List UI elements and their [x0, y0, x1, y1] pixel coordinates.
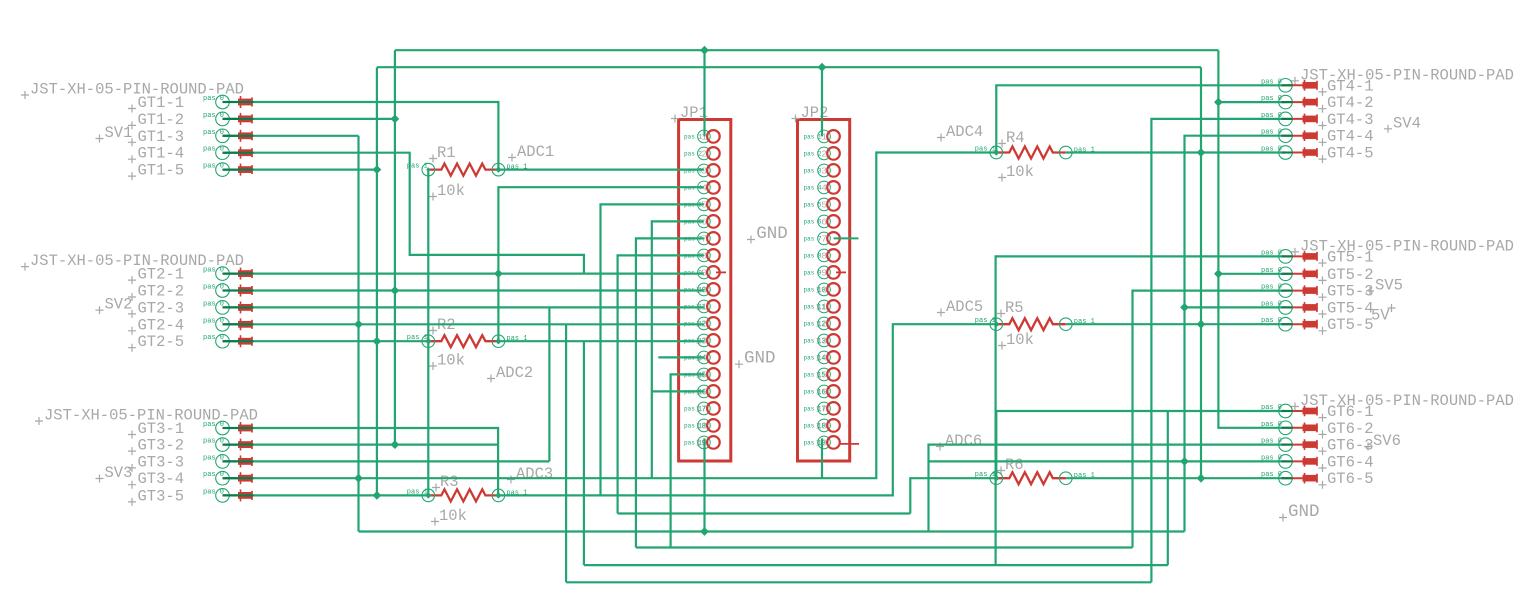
wire GT2-2 row to JP1 pin10: [223, 289, 704, 291]
svg-text:5V: 5V: [1371, 307, 1390, 325]
resistor pad1 circle: [422, 163, 435, 176]
svg-text:pas 0: pas 0: [203, 129, 224, 137]
round pad GT2-5: [216, 334, 230, 348]
wire GT1-5 to GND bus: [223, 169, 377, 171]
svg-text:GT5-5: GT5-5: [1327, 316, 1374, 334]
svg-text:GT6-1: GT6-1: [1327, 403, 1374, 421]
round pad GT5-5: [1279, 317, 1293, 331]
JP1 pin9 red stub: [716, 271, 726, 273]
pin symbol GT2-4: [223, 318, 253, 330]
resistor pad2 circle: [492, 335, 505, 348]
pin symbol GT1-2: [223, 113, 253, 125]
svg-text:ADC6: ADC6: [945, 432, 982, 450]
svg-text:GT4-2: GT4-2: [1327, 94, 1374, 112]
wire C8: R3 pad2 to R5 pad1: [498, 324, 996, 495]
resistor pad1 circle: [990, 318, 1003, 331]
svg-text:pas 18: pas 18: [684, 422, 706, 429]
round pad GT6-1: [1279, 404, 1293, 418]
wire R5 pad2 to GT5-5: [1066, 323, 1286, 325]
svg-text:R6: R6: [1005, 456, 1024, 474]
svg-text:SV4: SV4: [1393, 114, 1421, 132]
wire GT1-3 to bus V1: [223, 135, 359, 137]
svg-text:GT3-1: GT3-1: [138, 420, 185, 438]
wire C6 riser to GT4-3: [1151, 119, 1285, 582]
round pad GT4-5: [1279, 146, 1293, 160]
svg-text:GT1-5: GT1-5: [138, 162, 185, 180]
wire channel C3 (5V): [359, 530, 1185, 532]
wire channel C4: [636, 546, 1133, 548]
svg-text:SV6: SV6: [1373, 432, 1401, 450]
junction GT6-4: [1180, 457, 1189, 466]
pin header JP1: [679, 120, 731, 462]
pin symbol GT3-5: [223, 489, 253, 501]
wire R1 pad1 to R2 pad1 to R3 pad1: [427, 170, 429, 496]
wire riser to GT6-3: [929, 445, 1286, 532]
svg-text:GT2-4: GT2-4: [138, 316, 185, 334]
junction GT2-4: [354, 320, 363, 329]
pin symbol GT6-5: [1286, 473, 1318, 484]
wire GT5-2 row: [1218, 273, 1285, 275]
svg-text:10k: 10k: [437, 352, 465, 370]
wire GT1-2 to bus V3: [223, 118, 395, 120]
svg-text:10k: 10k: [1006, 331, 1034, 349]
wire GT6-1 riser down to channel C5: [1167, 411, 1169, 565]
junction GT2-2: [391, 286, 400, 295]
dark wire end caps on right connector pads: [1282, 84, 1293, 86]
svg-text:GT4-1: GT4-1: [1327, 77, 1374, 95]
wire R2 pad2 to JP1 pin13: [498, 340, 704, 342]
svg-text:pas 11: pas 11: [804, 303, 826, 310]
round pad GT3-3: [216, 455, 230, 469]
resistor pad1 circle: [990, 472, 1003, 485]
svg-text:pas 13: pas 13: [804, 337, 826, 344]
svg-text:SV3: SV3: [105, 464, 133, 482]
svg-text:pas 10: pas 10: [804, 286, 826, 293]
svg-text:R3: R3: [440, 473, 459, 491]
svg-text:JP2: JP2: [801, 104, 829, 122]
junction GT4-2: [1214, 98, 1223, 107]
svg-text:GT2-3: GT2-3: [138, 299, 185, 317]
pin symbol GT3-4: [223, 472, 253, 484]
pin symbol GT5-1: [1286, 251, 1318, 262]
svg-text:GT4-5: GT4-5: [1327, 145, 1374, 163]
wire GT3-2 row to ADC3 drop: [223, 444, 499, 446]
svg-text:pas 18: pas 18: [804, 422, 826, 429]
pin symbol GT4-5: [1286, 147, 1318, 158]
svg-text:GT4-3: GT4-3: [1327, 111, 1374, 129]
round pad GT4-2: [1279, 95, 1293, 109]
wire C7: GT3-4 row to R4 pad1: [223, 153, 997, 479]
round pad GT2-3: [216, 301, 230, 315]
pin symbol GT2-2: [223, 285, 253, 297]
svg-text:GT6-3: GT6-3: [1327, 437, 1374, 455]
pin symbol GT2-3: [223, 301, 253, 313]
wire JP1 pin16 feed from riser: [652, 390, 704, 392]
svg-text:pas 15: pas 15: [804, 371, 826, 378]
resistor pad2 circle: [1060, 472, 1073, 485]
svg-text:pas 8: pas 8: [804, 252, 822, 259]
svg-text:GT2-2: GT2-2: [138, 283, 185, 301]
wire GT1-4 route to pin9 row: [223, 153, 584, 274]
junction JP1 pin20 / C3: [700, 527, 709, 536]
round pad GT5-4: [1279, 301, 1293, 315]
wire R6 pad1 over to GT6-1: [996, 411, 1285, 478]
round pad GT3-5: [216, 489, 230, 503]
svg-text:GT3-5: GT3-5: [138, 487, 185, 505]
wire GT2-4 drop to channel C6: [565, 324, 567, 582]
svg-text:GT3-3: GT3-3: [138, 453, 185, 471]
pin header JP2: [798, 120, 850, 462]
junction GT5-4: [1180, 303, 1189, 312]
resistor R1 body: [428, 164, 498, 176]
wire JP2 pin1 stub from GND bus: [821, 67, 823, 136]
round pad GT5-3: [1279, 284, 1293, 298]
round pad GT1-3: [216, 129, 230, 143]
wire R4 pad2 to GT4-5: [1066, 151, 1286, 153]
dark pin lines over left connector symbols: [223, 101, 254, 103]
wire C4 riser to GT5-3: [1133, 291, 1286, 548]
svg-text:ADC1: ADC1: [517, 143, 554, 161]
resistor R6 body: [996, 472, 1066, 484]
JP2 pin7 green stub: [834, 237, 859, 239]
wire JP1 pin5 riser to ADC3 row C8: [601, 204, 704, 495]
wire C1 riser to R6 pad1: [910, 478, 996, 513]
svg-text:pas 7: pas 7: [804, 235, 822, 242]
svg-text:GND: GND: [744, 349, 776, 369]
svg-text:SV2: SV2: [105, 296, 133, 314]
wire GT3-5 to R3 pad1: [223, 494, 429, 496]
resistor R2 body: [428, 335, 498, 347]
svg-text:pas 0: pas 0: [203, 163, 224, 171]
pin symbol GT6-1: [1286, 406, 1318, 417]
junction GT4-5: [1197, 148, 1206, 157]
svg-text:pas 2: pas 2: [684, 150, 702, 157]
wire top GND bus T2: [377, 66, 1201, 68]
round pad GT4-3: [1279, 112, 1293, 126]
round pad GT1-5: [216, 163, 230, 177]
svg-text:pas 3: pas 3: [804, 167, 822, 174]
junction GT1-2: [391, 115, 400, 124]
svg-text:pas 17: pas 17: [804, 405, 826, 412]
pin symbol GT1-5: [223, 164, 253, 176]
wire JP1 pin1 stub from top bus: [703, 50, 705, 136]
svg-text:pas 0: pas 0: [203, 112, 224, 120]
round pad GT2-1: [216, 267, 230, 281]
svg-text:GT2-5: GT2-5: [138, 333, 185, 351]
wire left GND bus V2: [376, 67, 378, 495]
pin symbol GT6-4: [1286, 456, 1318, 467]
junction GT6-5: [1197, 474, 1206, 483]
wire R4 pad1 over to GT4-1: [996, 85, 1285, 152]
junction GT5-2: [1214, 269, 1223, 278]
wire GT2-3 drop to GT3-3 row: [548, 307, 550, 461]
round pad GT5-2: [1279, 267, 1293, 281]
wire GT6-4 row: [929, 460, 1286, 462]
svg-text:pas 0: pas 0: [203, 334, 224, 342]
wire GT2-4 row to JP1 pin12: [223, 323, 704, 325]
wire ADC1: R1 pad2 to JP1 pin3: [498, 169, 704, 171]
svg-text:pas 0: pas 0: [203, 438, 224, 446]
svg-text:pas 0: pas 0: [203, 95, 224, 103]
svg-text:pas 5: pas 5: [804, 201, 822, 208]
wire GT3-1 row down to R3 pad2 (ADC3): [223, 428, 499, 495]
round pad GT6-5: [1279, 471, 1293, 485]
pin symbol GT4-1: [1286, 80, 1318, 91]
round pad GT2-2: [216, 284, 230, 298]
round pad GT6-4: [1279, 455, 1293, 469]
resistor pad1 circle: [422, 335, 435, 348]
svg-text:pas 12: pas 12: [804, 320, 826, 327]
round pad GT4-4: [1279, 129, 1293, 143]
svg-text:pas 3: pas 3: [684, 167, 702, 174]
svg-text:pas 9: pas 9: [804, 269, 822, 276]
svg-text:GT1-1: GT1-1: [138, 94, 185, 112]
svg-text:SV1: SV1: [105, 124, 133, 142]
wire JP1 pin7 riser to channel C4: [636, 238, 704, 547]
round pad GT6-2: [1279, 421, 1293, 435]
junction JP1 pin1 / T1: [700, 46, 709, 55]
svg-text:GT5-3: GT5-3: [1327, 283, 1374, 301]
svg-text:pas 0: pas 0: [203, 284, 224, 292]
svg-text:GT1-3: GT1-3: [138, 128, 185, 146]
svg-text:pas 16: pas 16: [804, 388, 826, 395]
wire GT1-1 to R1 pad2: [223, 102, 499, 170]
round pad GT1-4: [216, 146, 230, 160]
svg-text:GT4-4: GT4-4: [1327, 128, 1374, 146]
wire right GND bus: [1200, 67, 1202, 478]
wire channel C1 (ADC6): [618, 512, 911, 514]
svg-text:pas 0: pas 0: [203, 421, 224, 429]
pin symbol GT1-1: [223, 96, 253, 108]
wire right bus to GT6-2: [1218, 50, 1285, 428]
svg-text:pas 4: pas 4: [804, 184, 822, 191]
wire R2 pad2 drop to channel C5: [583, 341, 585, 565]
svg-text:GT6-5: GT6-5: [1327, 470, 1374, 488]
svg-text:10k: 10k: [1006, 163, 1034, 181]
svg-text:pas 1: pas 1: [804, 133, 822, 140]
svg-text:pas 0: pas 0: [203, 300, 224, 308]
round pad GT5-1: [1279, 250, 1293, 264]
svg-text:ADC3: ADC3: [516, 465, 553, 483]
pin symbol GT5-4: [1286, 302, 1318, 313]
wire GT3-3 row to GT2-3 drop: [223, 460, 550, 462]
svg-text:pas 19: pas 19: [684, 439, 706, 446]
wire JP2 pin19 drop to GT3-4 row: [821, 438, 823, 478]
resistor pad2 circle: [492, 163, 505, 176]
svg-text:GT2-1: GT2-1: [138, 266, 185, 284]
junction GT3-5: [373, 491, 382, 500]
resistor pad2 circle: [1060, 318, 1073, 331]
pin symbol GT4-2: [1286, 97, 1318, 108]
wire JP1 pin8 riser to channel C1: [618, 255, 704, 513]
svg-text:GT5-4: GT5-4: [1327, 299, 1374, 317]
round pad GT3-1: [216, 421, 230, 435]
round pad GT3-4: [216, 471, 230, 485]
junction GT1-5: [373, 165, 382, 174]
pin symbol GT5-3: [1286, 285, 1318, 296]
pin symbol GT5-2: [1286, 269, 1318, 280]
svg-text:GT6-2: GT6-2: [1327, 420, 1374, 438]
resistor pad2 circle: [1060, 146, 1073, 159]
wire GT2-5 to R2 pad1: [223, 340, 429, 342]
wire JP1 pin15 riser to channel C4: [671, 374, 704, 547]
svg-text:ADC5: ADC5: [946, 298, 983, 316]
wire GT4-2 row: [1218, 101, 1285, 103]
svg-text:pas 0: pas 0: [203, 317, 224, 325]
resistor pad1 circle: [422, 489, 435, 502]
svg-text:pas 0: pas 0: [203, 488, 224, 496]
wire left bus V1 (GT1-3/GT2-4/GT3-4): [357, 136, 359, 532]
junction GT3-2: [391, 440, 400, 449]
pin symbol GT4-4: [1286, 130, 1318, 141]
wire channel C5: [584, 564, 1168, 566]
wire R6 pad2 to GT6-5: [1066, 477, 1286, 479]
svg-text:GND: GND: [1288, 502, 1320, 522]
JP2 pin9 red stub: [836, 271, 846, 273]
pin symbol GT3-2: [223, 439, 253, 451]
round pad GT1-1: [216, 95, 230, 109]
svg-text:pas 2: pas 2: [804, 150, 822, 157]
wire ADC2 riser: JP1 pin4 down to R2 pad2: [498, 187, 704, 341]
wire JP1 pin6 riser to GT3-4 row: [652, 221, 704, 478]
round pad GT4-1: [1279, 79, 1293, 93]
wire C5 riser to GT5-1: [996, 256, 1286, 565]
pin symbol GT3-3: [223, 455, 253, 467]
svg-text:pas 0: pas 0: [203, 454, 224, 462]
svg-text:GT6-4: GT6-4: [1327, 453, 1374, 471]
svg-text:GT1-4: GT1-4: [138, 145, 185, 163]
round pad GT6-3: [1279, 438, 1293, 452]
pin symbol GT5-5: [1286, 319, 1318, 330]
svg-text:GT5-1: GT5-1: [1327, 248, 1374, 266]
svg-text:GT5-2: GT5-2: [1327, 266, 1374, 284]
pin symbol GT1-4: [223, 147, 253, 159]
svg-text:GT3-2: GT3-2: [138, 437, 185, 455]
svg-text:pas 14: pas 14: [804, 354, 826, 361]
pin symbol GT3-1: [223, 422, 253, 434]
pin symbol GT4-3: [1286, 114, 1318, 125]
junction GT2-5: [373, 337, 382, 346]
wire left bus V3 (GT*-2): [394, 50, 396, 444]
svg-text:pas 0: pas 0: [203, 267, 224, 275]
junction JP2 pin1 / T2: [818, 63, 827, 72]
svg-text:ADC4: ADC4: [946, 123, 983, 141]
round pad GT2-4: [216, 318, 230, 332]
svg-text:GT1-2: GT1-2: [138, 111, 185, 129]
resistor R5 body: [996, 318, 1066, 330]
resistor R4 body: [996, 147, 1066, 159]
svg-text:pas 17: pas 17: [684, 405, 706, 412]
resistor R3 body: [428, 489, 498, 501]
svg-text:GND: GND: [756, 224, 788, 244]
pin symbol GT6-2: [1286, 423, 1318, 434]
round pad GT1-2: [216, 112, 230, 126]
pin symbol GT6-3: [1286, 439, 1318, 450]
svg-text:R5: R5: [1005, 299, 1024, 317]
junction ADC2/GT2-1: [494, 269, 503, 278]
svg-text:pas 1: pas 1: [684, 133, 702, 140]
svg-text:SV5: SV5: [1375, 276, 1403, 294]
resistor pad2 circle: [492, 489, 505, 502]
wire JP1 pin14 stub: [658, 356, 704, 358]
wire GT5-4 row: [1185, 306, 1286, 308]
wire GT2-3 row to JP1 pin11: [223, 306, 704, 308]
wire channel C6: [566, 581, 1151, 583]
svg-text:10k: 10k: [437, 182, 465, 200]
resistor pad1 circle: [990, 146, 1003, 159]
junction GT5-5: [1197, 320, 1206, 329]
junction GT3-4: [354, 474, 363, 483]
pin symbol GT2-5: [223, 335, 253, 347]
wire JP1 pin19 stub to channel C3: [703, 438, 705, 531]
pin symbol GT2-1: [223, 268, 253, 280]
wire top bus T1: [395, 49, 1219, 51]
wire GT2-1 row to JP1 pin9: [223, 273, 704, 275]
svg-text:R1: R1: [437, 144, 456, 162]
svg-text:ADC2: ADC2: [496, 364, 533, 382]
wire right 5V bus to GT4-4: [1185, 136, 1286, 532]
pin symbol GT1-3: [223, 130, 253, 142]
svg-text:R4: R4: [1006, 129, 1025, 147]
svg-text:pas 0: pas 0: [203, 146, 224, 154]
round pad GT3-2: [216, 438, 230, 452]
svg-text:pas 0: pas 0: [203, 471, 224, 479]
svg-text:GT3-4: GT3-4: [138, 470, 185, 488]
JP2 pin19 red stub: [840, 443, 859, 445]
svg-text:pas 6: pas 6: [804, 218, 822, 225]
svg-text:10k: 10k: [439, 507, 467, 525]
